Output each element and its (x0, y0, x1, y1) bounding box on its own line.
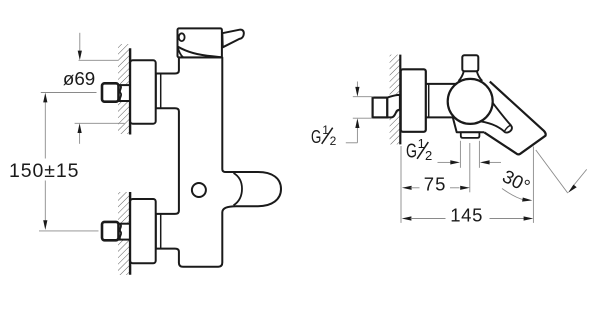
svg-text:ø69: ø69 (63, 68, 95, 89)
30 degree arc with arrow (right view) (502, 189, 532, 202)
base under circle (right view) (453, 115, 485, 132)
svg-text:G: G (311, 126, 321, 147)
wall line (right view) (399, 55, 401, 145)
wall line top segment (left view) (129, 48, 131, 134)
label G1/2 left (311, 123, 337, 148)
escutcheon flange bottom (left view) (130, 199, 156, 263)
stub divider line top (left view) (160, 74, 162, 109)
body with stubs and spout (left view) (156, 57, 281, 266)
dimension G1/2 left: upper arrow (right view) (355, 82, 359, 97)
spout tube (right view) (477, 102, 512, 132)
wall hatch top (left view) (118, 44, 130, 134)
extension line aerator centre (right view) (469, 143, 471, 192)
svg-text:75: 75 (424, 174, 447, 195)
lever arm (left view) (222, 30, 244, 48)
diverter circle (left view) (192, 183, 206, 197)
dimension o69 bottom arrow (left view) (78, 123, 82, 144)
extension line union top centre (left view) (41, 92, 97, 94)
svg-text:145: 145 (450, 204, 483, 225)
extension line nipple top (right view) (353, 96, 374, 98)
body cylinder (right view) (426, 84, 458, 118)
aerator (right view) (461, 132, 480, 138)
spout slab (right view) (462, 80, 546, 155)
stub divider line bottom (left view) (160, 214, 162, 249)
svg-text:G: G (406, 140, 417, 163)
svg-text:150±15: 150±15 (9, 160, 79, 182)
30 degree leader arrow (right view) (568, 169, 587, 192)
aerator width dimension arrows (right view) (438, 160, 502, 164)
label G1/2 right (406, 136, 432, 163)
escutcheon flange (right view) (401, 69, 426, 132)
eccentric union (right view) (373, 95, 400, 118)
dimension 75 (right view) (402, 186, 470, 190)
dimension o69 top arrow (left view) (78, 33, 82, 61)
dimension 150 line lower segment (left view) (43, 181, 47, 230)
wall hatch bottom (left view) (118, 192, 130, 275)
handle skirt right (right view) (477, 71, 483, 81)
handle head (left view) (178, 28, 222, 57)
extension line aerator right (right view) (478, 141, 480, 168)
union nipple bottom (left view) (102, 222, 130, 240)
handle circle (right view) (448, 79, 493, 124)
extension line flange top (left view) (79, 59, 119, 61)
svg-text:2: 2 (330, 134, 337, 148)
union nipple top (left view) (102, 83, 130, 101)
handle skirt left (right view) (459, 71, 464, 81)
extension line wall (right view) (400, 146, 402, 223)
spout inner arc (left view) (234, 173, 243, 205)
svg-text:2: 2 (425, 148, 432, 163)
extension line nipple bottom (right view) (353, 117, 373, 119)
dimension G1/2 left: lower arrow and jog (right view) (346, 118, 360, 143)
extension line flange bottom (left view) (75, 122, 125, 124)
30 degree reference diagonal (right view) (536, 150, 568, 193)
extension line aerator left (right view) (459, 141, 461, 168)
dimension 150 line upper segment (left view) (43, 93, 47, 159)
wall line bottom segment (left view) (129, 192, 131, 275)
extension line spout tip (right view) (532, 147, 534, 223)
extension line union bottom centre (left view) (39, 230, 99, 232)
escutcheon flange top (left view) (130, 60, 156, 123)
knob (right view) (462, 55, 478, 71)
dimension 145 (right view) (402, 216, 534, 220)
wall hatch (right view) (390, 55, 401, 145)
